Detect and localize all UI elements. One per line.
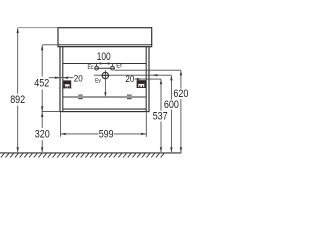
line C to 620 dimension (115, 69, 181, 71)
left 20 dimension line (49, 77, 74, 79)
dim 452 top arrow (41, 45, 43, 50)
Ev down arrow (104, 92, 106, 97)
circle Ev (102, 72, 108, 78)
cabinet inner bottom line (63, 108, 146, 110)
right 20 arrow right-pointing at bracket (137, 78, 142, 80)
tick Ec (96, 64, 98, 67)
dim 600 bottom arrow (170, 147, 172, 152)
bracket left lower frame (63, 84, 65, 88)
Ev vertical line (104, 70, 106, 96)
floor hatching (1, 153, 164, 157)
wire top reference line (18, 27, 58, 29)
dim 599 left extension (60, 112, 62, 137)
dim 892 top arrow (17, 28, 19, 33)
svg-text:892: 892 (10, 94, 25, 106)
dim 537 top arrow (160, 79, 162, 84)
dim 452 vertical line (41, 45, 43, 76)
line B through Ec Ef circles (95, 67, 115, 69)
internal line A worktop underside (63, 63, 146, 65)
dim 537 bottom arrow (160, 147, 162, 152)
washbasin top box (58, 28, 152, 47)
right 20 / 537 reference line (135, 78, 161, 80)
bracket right solid top (137, 80, 146, 84)
bracket left solid top (63, 80, 71, 84)
floor line (0, 152, 182, 154)
dim 452 bottom arrow (41, 106, 43, 111)
circle Ef (111, 66, 115, 70)
svg-text:100: 100 (97, 51, 111, 63)
dim 600 top arrow (170, 75, 172, 80)
dim 599 right arrow (141, 133, 146, 135)
dim 892 vertical line (17, 28, 19, 94)
dim 620 top arrow (180, 70, 182, 75)
bracket right lower frame (137, 84, 139, 88)
dim 600 vertical line (170, 75, 172, 99)
dim 100 arrows on line A (97, 62, 102, 64)
drawer divider line (63, 96, 146, 98)
dim 320 top arrow (41, 112, 43, 117)
washbasin inner bottom line (58, 44, 152, 46)
Ev horizontal line to 600 dimension (94, 74, 171, 76)
circle Ec (95, 66, 99, 70)
dim 620 vertical line (180, 70, 182, 88)
handle mark left = (78, 94, 82, 96)
handle mark right = (127, 94, 132, 96)
svg-text:Ev: Ev (95, 77, 101, 84)
cabinet outer box (60, 47, 149, 112)
dim 620 bottom arrow (180, 147, 182, 152)
cabinet left inner panel line (62, 47, 64, 112)
svg-text:599: 599 (99, 128, 114, 140)
svg-text:600: 600 (164, 99, 179, 111)
wire 452 top reference (42, 44, 58, 46)
svg-text:Ef: Ef (116, 63, 122, 70)
svg-text:Ec: Ec (88, 64, 94, 71)
dim 320 vertical line (41, 112, 43, 128)
svg-text:20: 20 (125, 74, 134, 85)
tick Ef (112, 64, 114, 67)
arrow at wall outer face on Ev line (152, 74, 157, 76)
svg-text:537: 537 (153, 111, 168, 123)
cabinet right inner panel line (145, 47, 147, 112)
dim 599 left arrow (61, 133, 66, 135)
svg-text:20: 20 (74, 73, 83, 84)
dim 320 bottom arrow (41, 147, 43, 152)
dim 892 bottom arrow (17, 147, 19, 152)
svg-text:320: 320 (35, 129, 50, 141)
dim 537 vertical line (160, 79, 162, 111)
svg-text:452: 452 (34, 78, 49, 90)
wire bottom reference to 452 (42, 111, 61, 113)
left 20 arrow left-pointing at inner face (63, 77, 68, 79)
dim 599 line (61, 133, 99, 135)
dim 599 right extension (145, 112, 147, 137)
left 20 arrow right-pointing at outer face (55, 77, 60, 79)
